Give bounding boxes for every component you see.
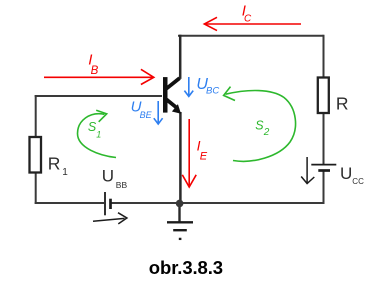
label S2 [255, 118, 269, 137]
wire base horizontal [35, 95, 162, 97]
wire top horizontal [178, 35, 324, 37]
battery UBB [102, 167, 128, 216]
wire right vertical upper [323, 35, 325, 164]
wire right vertical lower [323, 171, 325, 204]
current arrow IC [204, 17, 301, 30]
svg-text:U: U [102, 167, 114, 186]
wire ground stem [178, 203, 180, 222]
label UBC [196, 76, 219, 97]
loop arrow S1 [78, 110, 117, 157]
arrow UCC polarity [301, 157, 314, 184]
svg-text:1: 1 [62, 167, 68, 178]
svg-text:obr.3.8.3: obr.3.8.3 [149, 257, 223, 278]
svg-text:E: E [200, 150, 208, 162]
voltage arrow UBC [184, 77, 193, 96]
svg-text:U: U [340, 164, 352, 183]
label S1 [88, 120, 101, 139]
wire collector vertical [179, 35, 182, 79]
wire emitter vertical [179, 112, 182, 203]
resistor R [318, 78, 349, 114]
svg-text:1: 1 [96, 129, 101, 139]
svg-text:B: B [91, 65, 99, 77]
current arrow IE [182, 119, 196, 187]
voltage arrow UBE [154, 101, 163, 124]
svg-text:R: R [48, 154, 61, 174]
svg-text:2: 2 [263, 127, 270, 138]
wire left vertical upper [35, 95, 37, 137]
battery UCC [311, 164, 364, 186]
arrow UBB polarity [93, 213, 127, 224]
svg-text:R: R [336, 94, 349, 114]
label IB [88, 52, 98, 77]
svg-text:BE: BE [140, 110, 153, 120]
wire bottom right [112, 202, 324, 204]
loop arrow S2 [224, 87, 296, 162]
svg-text:C: C [244, 14, 252, 25]
wire bottom left [35, 202, 104, 204]
label UBE [131, 98, 153, 120]
resistor R1 [30, 137, 69, 178]
svg-text:BB: BB [116, 180, 128, 190]
label IC [242, 3, 252, 25]
wire left vertical lower [35, 172, 37, 204]
svg-text:CC: CC [352, 177, 364, 186]
node junction [176, 200, 184, 208]
transistor T [163, 77, 181, 114]
ground [167, 222, 193, 239]
current arrow IB [44, 69, 154, 84]
label IE [197, 137, 208, 162]
svg-text:BC: BC [206, 86, 219, 97]
